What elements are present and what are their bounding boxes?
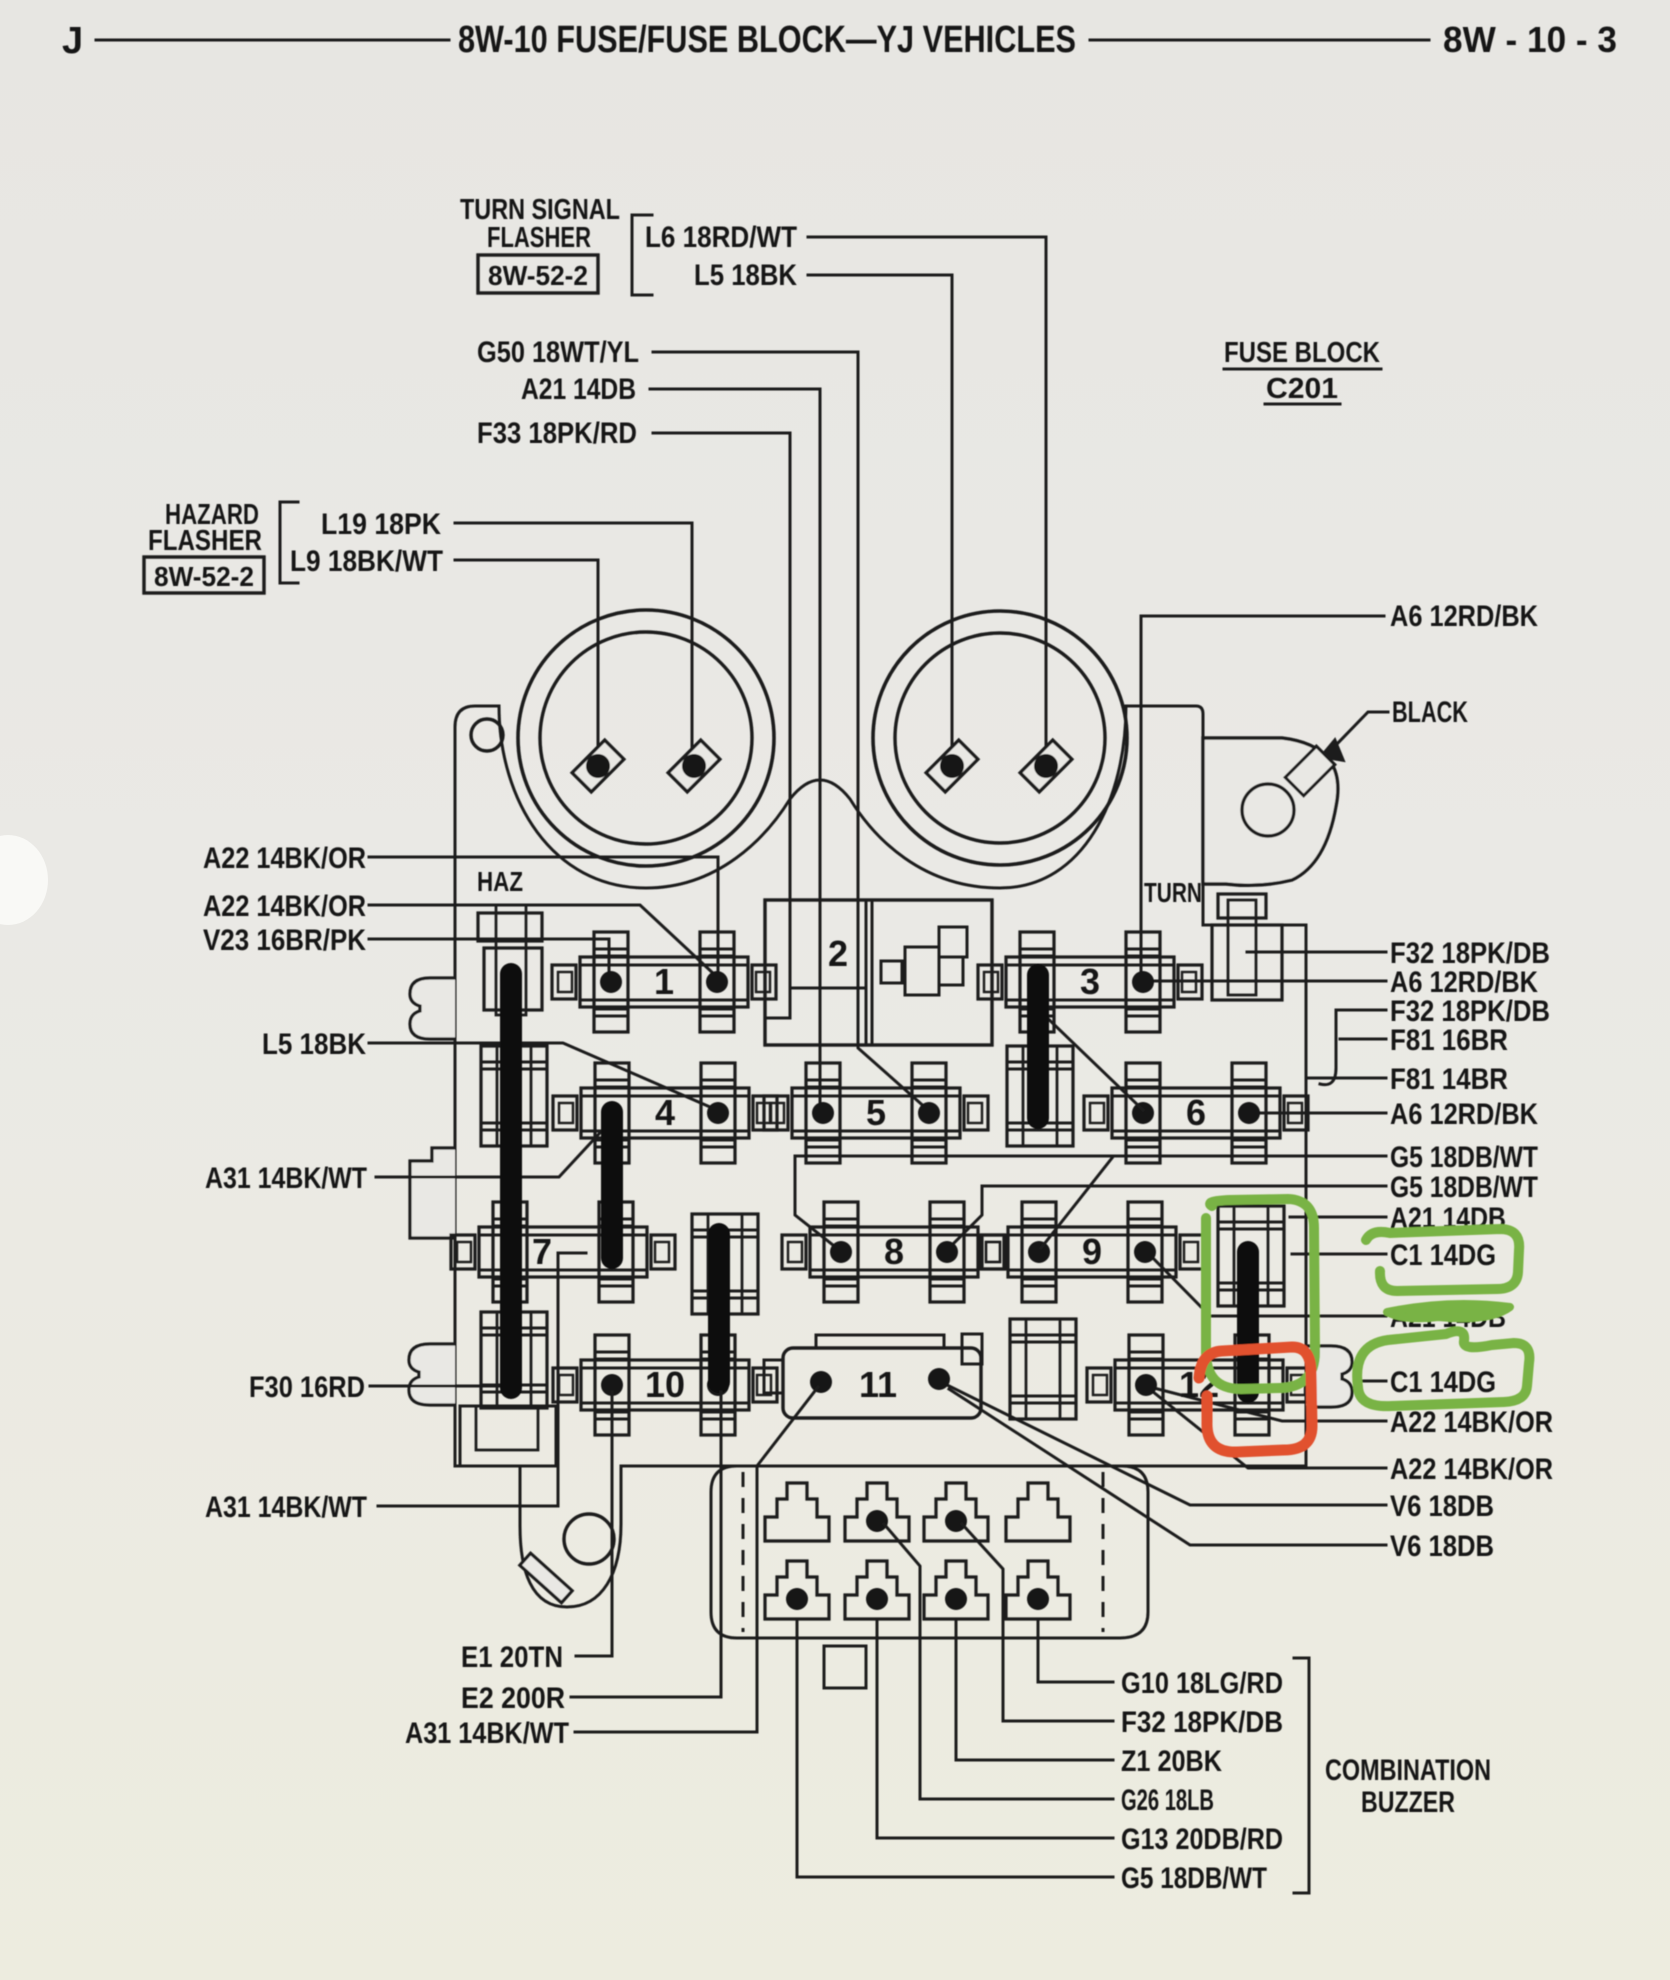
svg-text:G13 20DB/RD: G13 20DB/RD [1121, 1823, 1283, 1856]
left tab A [410, 978, 455, 1039]
fuse 4 [553, 1063, 777, 1163]
svg-text:L5 18BK: L5 18BK [694, 259, 797, 292]
svg-text:2: 2 [828, 933, 848, 974]
jumper bar HAZ column [500, 974, 522, 1388]
wire F33 [653, 433, 790, 1018]
wire F81-r5 [1306, 1077, 1386, 1080]
svg-text:10: 10 [645, 1364, 685, 1405]
wire A6-r2 [1147, 980, 1386, 983]
buzzer terminal top 1 [765, 1483, 829, 1541]
dashed separator left [742, 1472, 745, 1632]
dashed separator right [1102, 1472, 1105, 1632]
svg-text:F81 14BR: F81 14BR [1390, 1063, 1508, 1096]
svg-text:3: 3 [1080, 961, 1100, 1002]
wire V6-r15 from fuse 11 [945, 1384, 1386, 1505]
wire F81-r4 [1340, 1038, 1386, 1041]
wire L5 top [808, 275, 952, 748]
wire G50 [653, 352, 928, 1110]
buzzer terminal top 2 [845, 1483, 909, 1541]
box 8W-52-2 (hazard flasher) [144, 557, 264, 593]
wire E2 [571, 1392, 721, 1697]
wire V6-r16 from fuse 11 [949, 1389, 1386, 1545]
clip mount below col 514 [460, 1406, 556, 1466]
svg-text:A22 14BK/OR: A22 14BK/OR [1390, 1406, 1553, 1439]
header rule left [96, 39, 449, 42]
turn flasher socket (right circle) [873, 611, 1127, 865]
black index terminal (tilted) [1285, 746, 1334, 795]
svg-text:J: J [62, 20, 83, 62]
svg-text:11: 11 [859, 1364, 897, 1405]
wire F32-r3 with hook [1336, 1010, 1386, 1068]
fuse block outline [455, 706, 1306, 1607]
jumper bar fuse3 column [1027, 975, 1049, 1118]
wire F32-r1 [1247, 951, 1386, 954]
svg-text:A31 14BK/WT: A31 14BK/WT [205, 1162, 367, 1195]
svg-text:COMBINATION: COMBINATION [1325, 1754, 1491, 1787]
wire G5-r7 to fuse 8 [795, 1156, 1386, 1249]
svg-text:8W-52-2: 8W-52-2 [154, 561, 254, 592]
wire A31-1 [376, 1122, 610, 1177]
wire A31 bottom [575, 1387, 818, 1732]
svg-text:V23 16BR/PK: V23 16BR/PK [203, 924, 366, 957]
wire C1-r12 [1356, 1380, 1386, 1383]
svg-text:6: 6 [1186, 1092, 1206, 1133]
buzzer terminal bottom 2 [845, 1561, 909, 1619]
bracket for hazard flasher [280, 502, 298, 583]
fuse 7 [451, 1202, 675, 1302]
svg-text:FLASHER: FLASHER [487, 222, 591, 254]
buzzer terminal bottom 1 [765, 1561, 829, 1619]
svg-text:L6 18RD/WT: L6 18RD/WT [645, 221, 797, 254]
wire E1 [576, 1392, 612, 1656]
wire A21 top [650, 389, 820, 1110]
svg-text:G26 18LB: G26 18LB [1121, 1784, 1214, 1817]
clip col 514 row 4 [481, 1312, 547, 1408]
svg-text:8: 8 [884, 1231, 904, 1272]
svg-text:F81 16BR: F81 16BR [1390, 1024, 1508, 1057]
svg-text:4: 4 [655, 1092, 675, 1133]
left tab B [410, 1148, 455, 1238]
svg-text:L19 18PK: L19 18PK [321, 508, 441, 541]
svg-text:C201: C201 [1266, 373, 1338, 405]
svg-text:L5 18BK: L5 18BK [262, 1028, 366, 1061]
svg-text:7: 7 [532, 1231, 552, 1272]
svg-text:TURN: TURN [1144, 877, 1202, 908]
svg-text:A31 14BK/WT: A31 14BK/WT [405, 1717, 569, 1750]
wire V23 [369, 939, 609, 976]
wire G13 [877, 1619, 1113, 1838]
wire A21-r11 from fuse 9 [1147, 1252, 1386, 1316]
svg-text:1: 1 [654, 961, 674, 1002]
hazard flasher socket (left circle) [518, 610, 774, 866]
wire from fuse 9 left dot to G5 line [1041, 1158, 1112, 1248]
wire A31-2 [378, 1253, 586, 1506]
arrow to black terminal [1337, 712, 1388, 744]
svg-text:A6 12RD/BK: A6 12RD/BK [1390, 1098, 1538, 1131]
wire A22-r14 from fuse 12 [1152, 1391, 1386, 1468]
svg-text:8W-52-2: 8W-52-2 [488, 260, 588, 291]
wire A6-r6 to fuse 6 [1251, 1112, 1386, 1115]
corner tab top-right [1203, 738, 1338, 885]
svg-text:E2 200R: E2 200R [461, 1682, 565, 1715]
svg-text:G5 18DB/WT: G5 18DB/WT [1121, 1862, 1267, 1895]
box 8W-52-2 (turn signal flasher) [478, 255, 598, 293]
mounting hole top-left [471, 719, 503, 751]
right tab (C1 14DG) [1306, 1346, 1352, 1407]
terminal right circle right [1020, 740, 1072, 792]
clip col 1251 row 3 (green circled) [1218, 1206, 1284, 1306]
bracket for turn signal flasher [632, 215, 652, 295]
svg-text:A31 14BK/WT: A31 14BK/WT [205, 1491, 367, 1524]
fuse 12 [1087, 1335, 1311, 1435]
svg-text:L9 18BK/WT: L9 18BK/WT [290, 545, 443, 578]
buzzer terminal bottom 4 [1006, 1561, 1070, 1619]
terminal left circle right [668, 740, 720, 792]
wire bridge [824, 1646, 866, 1688]
clip col 1040 row 2 [1007, 1046, 1073, 1146]
bracket combination buzzer [1294, 1658, 1309, 1893]
jumper bar clip-fuse10 [708, 1234, 730, 1382]
mounting hole top-right [1242, 784, 1294, 836]
wire A22-r13 from fuse 12 [1150, 1387, 1386, 1421]
relay box 2 [765, 900, 992, 1045]
svg-text:FUSE BLOCK: FUSE BLOCK [1224, 337, 1380, 369]
clip col 514 row 2 [481, 1046, 547, 1146]
combination buzzer connector box [711, 1466, 1148, 1638]
wire L6 [808, 237, 1046, 748]
svg-text:8W-10 FUSE/FUSE BLOCK—YJ VEHIC: 8W-10 FUSE/FUSE BLOCK—YJ VEHICLES [458, 19, 1076, 61]
turn connector (col 1245) [1212, 894, 1282, 1000]
green annotation box around fuse 12 jumper [1206, 1199, 1315, 1389]
green loop around C1 14DG lower [1357, 1331, 1529, 1406]
svg-text:A22 14BK/OR: A22 14BK/OR [1390, 1453, 1553, 1486]
svg-text:A6 12RD/BK: A6 12RD/BK [1390, 600, 1538, 633]
svg-text:Z1 20BK: Z1 20BK [1121, 1745, 1222, 1778]
svg-text:A22 14BK/OR: A22 14BK/OR [203, 890, 366, 923]
svg-text:C1 14DG: C1 14DG [1390, 1239, 1496, 1272]
wire A22-1 [369, 857, 718, 975]
svg-text:G5 18DB/WT: G5 18DB/WT [1390, 1171, 1538, 1204]
clip col 725 row 3 [692, 1214, 758, 1314]
svg-text:E1 20TN: E1 20TN [461, 1641, 563, 1674]
fuse 6 [1084, 1063, 1308, 1163]
svg-text:FLASHER: FLASHER [148, 525, 262, 557]
svg-text:8W - 10 - 3: 8W - 10 - 3 [1443, 19, 1617, 60]
green underline blob [1387, 1304, 1510, 1318]
svg-text:F32 18PK/DB: F32 18PK/DB [1121, 1706, 1283, 1739]
svg-text:G5 18DB/WT: G5 18DB/WT [1390, 1141, 1538, 1174]
keyhole [564, 1514, 614, 1564]
svg-text:HAZ: HAZ [477, 866, 523, 897]
wire A21-r9 [1290, 1216, 1386, 1219]
svg-text:G10 18LG/RD: G10 18LG/RD [1121, 1667, 1283, 1700]
svg-text:V6 18DB: V6 18DB [1390, 1530, 1494, 1563]
svg-text:V6 18DB: V6 18DB [1390, 1490, 1494, 1523]
svg-text:BUZZER: BUZZER [1361, 1786, 1455, 1819]
clip col 1043 row 3b [1010, 1319, 1076, 1419]
fuse 9 [980, 1202, 1204, 1302]
wire G10 [1038, 1619, 1113, 1682]
terminal right circle left [926, 740, 978, 792]
green loop around C1 14DG upper [1366, 1229, 1519, 1291]
wire A6 to fuse 3 [1141, 616, 1384, 975]
wire from clip to fuse 6 left dot [1040, 1011, 1143, 1110]
wire Z1 [956, 1619, 1113, 1760]
wire F32 bottom [962, 1524, 1113, 1721]
left tab C [409, 1344, 455, 1405]
svg-text:A22 14BK/OR: A22 14BK/OR [203, 842, 366, 875]
fuse 8 [782, 1202, 1006, 1302]
wire L19 [455, 523, 692, 748]
wire L5 [369, 1043, 717, 1110]
svg-text:C1 14DG: C1 14DG [1390, 1366, 1496, 1399]
svg-text:A21 14DB: A21 14DB [521, 373, 636, 406]
svg-text:9: 9 [1082, 1231, 1102, 1272]
svg-text:F30 16RD: F30 16RD [249, 1371, 365, 1404]
buzzer terminal bottom 3 [924, 1561, 988, 1619]
wire G5 bottom [797, 1619, 1113, 1877]
hazard feed connector (col 514) [478, 905, 542, 1015]
jumper bar fuse4-fuse7 [601, 1112, 623, 1258]
fuse 10 [553, 1335, 777, 1435]
fuse 3 [978, 932, 1202, 1032]
terminal left circle left [572, 740, 624, 792]
red annotation box around fuse 12 right clip [1199, 1347, 1312, 1452]
wire A22-2 [369, 905, 716, 976]
connector box 11 [764, 1334, 982, 1418]
svg-text:BLACK: BLACK [1392, 696, 1468, 729]
wire F30 [370, 1385, 508, 1388]
fuse 5 [764, 1063, 988, 1163]
buzzer terminal top 4 [1006, 1483, 1070, 1541]
fuse 1 [552, 932, 776, 1032]
wire G5-r8 to fuse 8 [950, 1186, 1386, 1247]
wire L9 [455, 560, 598, 748]
svg-text:5: 5 [866, 1092, 886, 1133]
wire C1-r10 [1292, 1253, 1386, 1256]
header rule right [1090, 39, 1429, 42]
svg-text:F33 18PK/RD: F33 18PK/RD [477, 417, 637, 450]
svg-text:G50 18WT/YL: G50 18WT/YL [477, 336, 639, 369]
jumper bar fuse12 column (circled) [1237, 1252, 1259, 1392]
buzzer terminal top 3 [924, 1483, 988, 1541]
wire G26 [884, 1524, 1113, 1799]
